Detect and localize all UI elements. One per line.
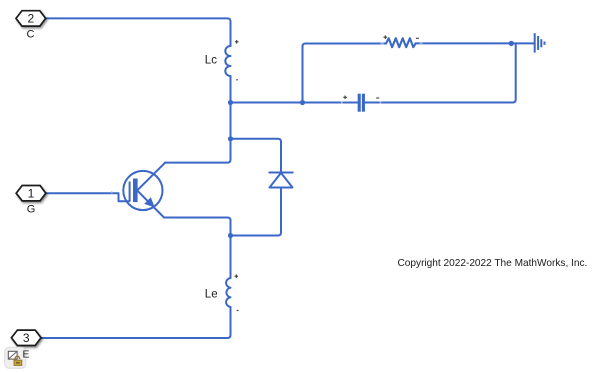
port 1 hexagon — [16, 186, 46, 201]
transistor Q1 gate bar thin — [129, 182, 131, 202]
resistor R zigzag — [386, 38, 416, 47]
polarity + (Le) — [235, 274, 239, 278]
port 2 hexagon — [16, 11, 46, 26]
svg-text:1: 1 — [28, 186, 35, 200]
svg-text:Copyright 2022-2022 The MathWo: Copyright 2022-2022 The MathWorks, Inc. — [398, 258, 588, 269]
polarity - (Le) — [237, 309, 239, 311]
wire snubber bottom left (node to capacitor) — [231, 102, 358, 104]
svg-text:3: 3 — [23, 331, 30, 345]
diode D triangle — [270, 173, 293, 188]
node junction dot (snubber left vertical) — [300, 100, 305, 105]
wire capacitor to right vertical — [365, 44, 516, 103]
transistor Q1 IGBT circle — [123, 171, 162, 210]
svg-text:G: G — [27, 204, 36, 216]
svg-text:C: C — [27, 28, 35, 40]
svg-text:E: E — [22, 349, 29, 361]
ground (electrical reference) — [535, 33, 545, 52]
transistor Q1 gate bar thick — [133, 179, 138, 203]
svg-text:Le: Le — [205, 288, 218, 300]
diode D cathode bar — [269, 172, 292, 174]
wire diode bottom branch — [231, 188, 282, 236]
wire port C to Lc top — [46, 18, 231, 46]
wire resistor right to ground lead — [416, 42, 534, 44]
polarity - (capacitor) — [376, 97, 379, 99]
wire port stub marks (lighter) — [111, 43, 423, 192]
polarity + (resistor) — [384, 35, 388, 39]
node junction dot (diode top branch) — [228, 136, 233, 141]
polarity + (capacitor) — [343, 96, 347, 100]
capacitor C plates — [359, 94, 363, 112]
polarity - (resistor) — [416, 37, 419, 39]
node junction dot (ground tap) — [509, 41, 514, 46]
wire diode top branch — [231, 139, 282, 173]
node junction dot (emitter / diode bottom / Le) — [228, 233, 233, 238]
wire Lc bottom to collector corner — [165, 76, 231, 163]
wire Le bottom to port E — [41, 307, 231, 338]
port 3 hexagon — [11, 330, 41, 345]
svg-text:Lc: Lc — [205, 54, 217, 66]
badge icon (locked library link) — [5, 347, 26, 368]
wire gate lead — [46, 193, 129, 201]
wire node to Le top — [230, 236, 232, 279]
polarity + (Lc) — [235, 40, 239, 44]
inductor Lc — [225, 46, 230, 76]
inductor Le — [226, 278, 230, 307]
polarity - (Lc) — [236, 79, 238, 81]
svg-text:2: 2 — [27, 12, 34, 26]
wire collector diagonal — [137, 163, 165, 191]
transistor Q1 emitter arrow — [145, 198, 154, 206]
wire emitter diagonal and horizontal — [137, 191, 230, 236]
node junction dot (Lc bottom / snubber) — [228, 100, 233, 105]
wire snubber left vertical — [303, 44, 387, 103]
